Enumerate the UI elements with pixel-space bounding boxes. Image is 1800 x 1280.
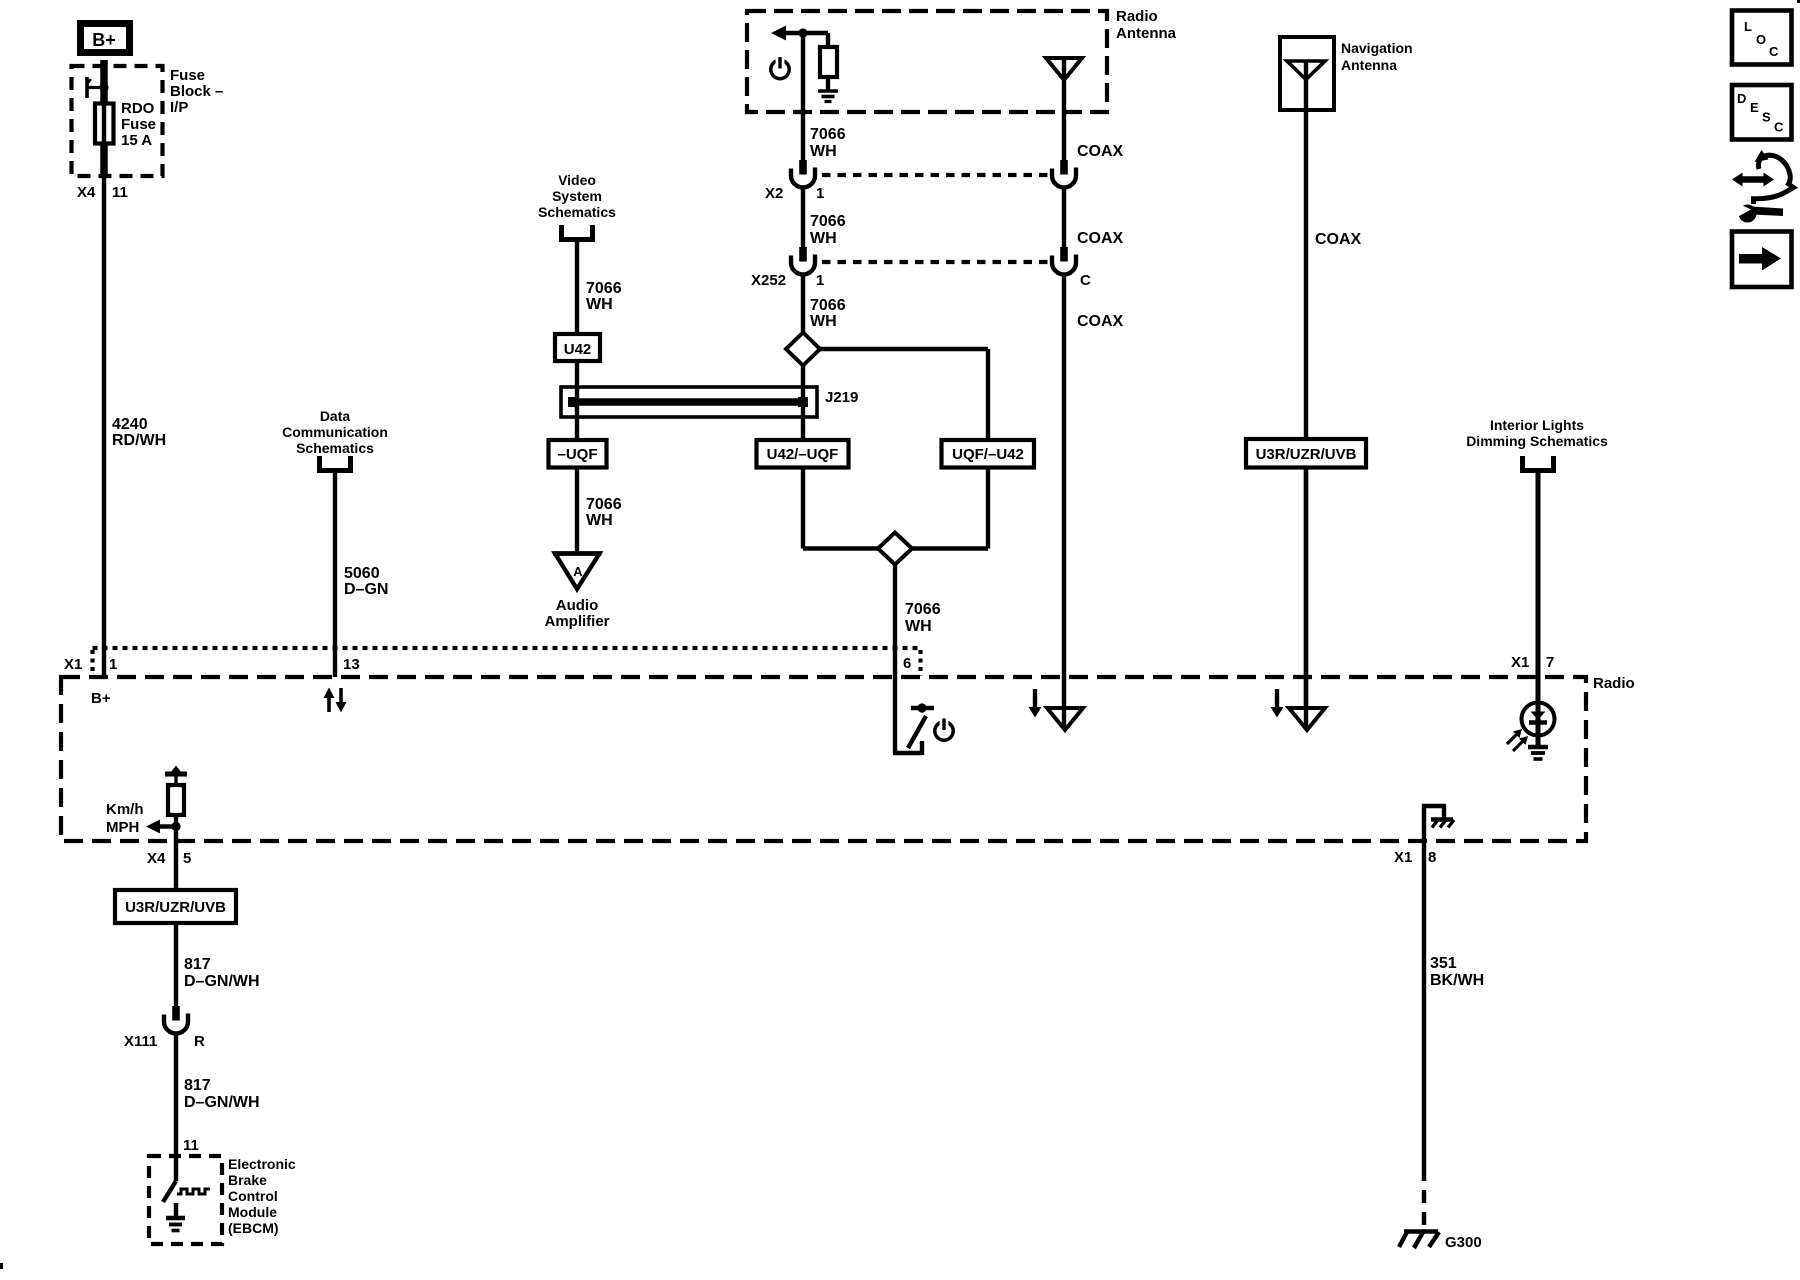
- svg-text:Schematics: Schematics: [538, 204, 616, 220]
- svg-text:UQF/–U42: UQF/–U42: [952, 446, 1024, 463]
- svg-text:X4: X4: [147, 850, 166, 867]
- svg-text:Electronic: Electronic: [228, 1156, 296, 1172]
- svg-text:R: R: [194, 1033, 205, 1050]
- svg-text:J219: J219: [825, 389, 858, 406]
- svg-text:7066: 7066: [810, 213, 846, 230]
- svg-text:I/P: I/P: [170, 99, 188, 116]
- svg-text:RD/WH: RD/WH: [112, 432, 166, 449]
- svg-text:B+: B+: [91, 690, 111, 707]
- svg-text:WH: WH: [586, 296, 613, 313]
- svg-text:Fuse: Fuse: [121, 116, 156, 133]
- svg-text:WH: WH: [810, 230, 837, 247]
- svg-text:Antenna: Antenna: [1341, 57, 1397, 73]
- svg-text:7066: 7066: [586, 280, 622, 297]
- svg-text:–UQF: –UQF: [557, 446, 597, 463]
- svg-text:1: 1: [816, 272, 824, 289]
- svg-text:X252: X252: [751, 272, 786, 289]
- svg-text:WH: WH: [810, 143, 837, 160]
- svg-text:D–GN/WH: D–GN/WH: [184, 1094, 260, 1111]
- svg-text:Block –: Block –: [170, 83, 223, 100]
- svg-text:817: 817: [184, 956, 211, 973]
- svg-text:7066: 7066: [810, 126, 846, 143]
- svg-text:X1: X1: [64, 656, 82, 673]
- svg-text:D: D: [1737, 91, 1746, 106]
- svg-text:(EBCM): (EBCM): [228, 1220, 279, 1236]
- svg-text:B+: B+: [92, 30, 116, 50]
- svg-text:15 A: 15 A: [121, 132, 152, 149]
- svg-text:7066: 7066: [905, 601, 941, 618]
- svg-text:Radio: Radio: [1116, 8, 1158, 25]
- svg-text:Radio: Radio: [1593, 675, 1635, 692]
- svg-text:351: 351: [1430, 955, 1457, 972]
- svg-text:BK/WH: BK/WH: [1430, 972, 1484, 989]
- svg-text:7066: 7066: [810, 297, 846, 314]
- svg-text:WH: WH: [905, 618, 932, 635]
- svg-text:U42/–UQF: U42/–UQF: [767, 446, 839, 463]
- svg-text:11: 11: [112, 184, 128, 201]
- svg-text:U3R/UZR/UVB: U3R/UZR/UVB: [1256, 446, 1357, 463]
- svg-text:L: L: [1744, 19, 1752, 34]
- svg-text:5: 5: [183, 850, 191, 867]
- svg-text:X4: X4: [77, 184, 96, 201]
- svg-text:11: 11: [183, 1137, 199, 1154]
- svg-text:COAX: COAX: [1077, 313, 1124, 330]
- svg-text:1: 1: [816, 185, 824, 202]
- svg-text:S: S: [1762, 110, 1771, 125]
- svg-text:D–GN: D–GN: [344, 581, 388, 598]
- svg-text:C: C: [1774, 120, 1784, 135]
- svg-text:5060: 5060: [344, 565, 380, 582]
- svg-text:Control: Control: [228, 1188, 278, 1204]
- svg-text:Brake: Brake: [228, 1172, 267, 1188]
- svg-text:RDO: RDO: [121, 100, 155, 117]
- svg-text:D–GN/WH: D–GN/WH: [184, 973, 260, 990]
- svg-text:WH: WH: [810, 313, 837, 330]
- svg-text:Fuse: Fuse: [170, 67, 205, 84]
- svg-text:8: 8: [1428, 849, 1436, 866]
- svg-text:Schematics: Schematics: [296, 440, 374, 456]
- svg-text:U42: U42: [564, 341, 592, 358]
- svg-text:X1: X1: [1394, 849, 1412, 866]
- svg-text:O: O: [1756, 32, 1766, 47]
- svg-text:WH: WH: [586, 512, 613, 529]
- svg-text:Module: Module: [228, 1204, 277, 1220]
- svg-text:13: 13: [343, 656, 360, 673]
- svg-text:COAX: COAX: [1315, 231, 1362, 248]
- svg-text:Antenna: Antenna: [1116, 25, 1177, 42]
- svg-text:Interior Lights: Interior Lights: [1490, 417, 1584, 433]
- svg-text:E: E: [1750, 100, 1759, 115]
- svg-text:Video: Video: [558, 172, 596, 188]
- svg-text:COAX: COAX: [1077, 143, 1124, 160]
- svg-text:7066: 7066: [586, 496, 622, 513]
- svg-text:MPH: MPH: [106, 819, 139, 836]
- svg-text:Audio: Audio: [556, 597, 599, 614]
- svg-text:C: C: [1769, 44, 1779, 59]
- svg-text:1: 1: [109, 656, 117, 673]
- svg-text:X2: X2: [765, 185, 783, 202]
- svg-text:Dimming Schematics: Dimming Schematics: [1466, 433, 1608, 449]
- svg-text:Km/h: Km/h: [106, 801, 144, 818]
- svg-text:4240: 4240: [112, 416, 148, 433]
- svg-text:X111: X111: [124, 1033, 157, 1050]
- svg-text:COAX: COAX: [1077, 230, 1124, 247]
- svg-text:X1: X1: [1511, 654, 1529, 671]
- svg-text:U3R/UZR/UVB: U3R/UZR/UVB: [125, 899, 226, 916]
- svg-text:817: 817: [184, 1077, 211, 1094]
- svg-text:Communication: Communication: [282, 424, 388, 440]
- svg-text:7: 7: [1546, 654, 1554, 671]
- svg-text:Navigation: Navigation: [1341, 40, 1413, 56]
- svg-text:System: System: [552, 188, 602, 204]
- svg-text:Data: Data: [320, 408, 351, 424]
- svg-text:G300: G300: [1445, 1234, 1482, 1251]
- svg-text:A: A: [573, 564, 583, 579]
- svg-text:6: 6: [903, 655, 911, 672]
- svg-text:Amplifier: Amplifier: [544, 613, 609, 630]
- svg-text:C: C: [1080, 272, 1091, 289]
